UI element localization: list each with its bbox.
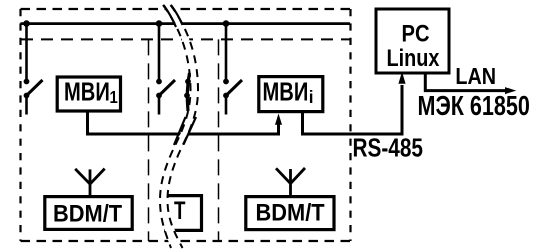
wire: LAN from PC down and right [425, 73, 506, 91]
node: bus junction dot 2 [156, 20, 163, 27]
antenna 1 [75, 169, 105, 197]
svg-text:1: 1 [110, 88, 118, 107]
arrow LAN [505, 87, 516, 94]
box BDM/T left [45, 197, 132, 230]
svg-text:BDM/T: BDM/T [256, 199, 325, 226]
break slash over bus (left) [164, 5, 177, 27]
svg-text:RS-485: RS-485 [353, 133, 423, 162]
svg-text:Т: Т [174, 196, 186, 224]
cell separator dashed line 2 [218, 39, 220, 241]
label МВИ1 [64, 77, 118, 107]
break curve left (dashed) [160, 5, 191, 248]
node: bus junction dot 3 [223, 20, 230, 27]
node: bus junction dot 1 [23, 20, 30, 27]
outer dashed enclosure box [21, 9, 351, 241]
break slash over RS-485 wire (right) [184, 117, 197, 145]
inner dashed horizontal line [21, 38, 350, 40]
wire: RS-485 from МВИ1 down and right to МВИi arrow [88, 112, 279, 134]
svg-text:BDM/T: BDM/T [53, 200, 122, 227]
partial switch at break [184, 73, 191, 111]
svg-text:МЭК 61850: МЭК 61850 [418, 90, 530, 121]
break slash over bus (right) [171, 5, 183, 25]
wire: RS-485 from МВИi down and right to PC arrow [303, 85, 403, 134]
svg-text:МВИ: МВИ [64, 77, 110, 106]
bus (top horizontal power line) [20, 22, 350, 25]
svg-text:Linux: Linux [387, 44, 440, 71]
box BDM/T right [246, 197, 334, 230]
break curve right (dashed) [168, 5, 199, 248]
switch S2 (disconnect) [156, 24, 175, 115]
box МВИi [259, 77, 323, 112]
arrow into МВИi bottom [275, 114, 282, 125]
antenna 2 [276, 168, 305, 197]
break band white fill [160, 5, 198, 248]
svg-text:МВИ: МВИ [263, 77, 309, 106]
switch S3 (disconnect) [223, 24, 242, 115]
box МВИ1 [57, 77, 120, 111]
arrow into PC bottom [398, 72, 405, 84]
cell separator dashed line 1 [148, 39, 150, 241]
svg-text:LAN: LAN [455, 63, 496, 89]
switch S1 (disconnect) [24, 24, 43, 115]
break slash over RS-485 wire (left) [174, 117, 186, 145]
label МВИi [263, 77, 314, 107]
svg-text:i: i [309, 87, 314, 108]
partial box T (cut by break) [164, 196, 202, 231]
box PC Linux [376, 9, 449, 73]
